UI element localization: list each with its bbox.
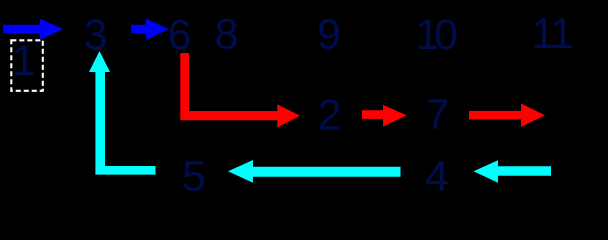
svg-text:6: 6	[168, 11, 192, 59]
node 1 (dashed box)	[11, 40, 43, 91]
svg-text:9: 9	[317, 11, 341, 59]
cyan elbow arrow: node 5 left-up to node 3	[89, 51, 156, 175]
svg-text:2: 2	[318, 92, 342, 140]
red arrow C: node 7 to exit right	[469, 104, 545, 127]
svg-text:4: 4	[425, 153, 449, 201]
svg-text:1: 1	[550, 10, 574, 58]
svg-text:3: 3	[84, 11, 108, 59]
svg-text:7: 7	[426, 91, 450, 139]
red arrow B: node 2 to node 7	[362, 105, 407, 127]
cyan arrow C: entry right to node 4	[474, 160, 552, 183]
red elbow arrow: node 6 down-right to node 2	[180, 53, 300, 128]
svg-text:8: 8	[215, 11, 239, 59]
cyan arrow B: node 4 to node 5	[228, 160, 401, 183]
svg-text:1: 1	[12, 37, 36, 85]
blue arrow B: node 3 to node 6	[131, 19, 169, 40]
svg-text:0: 0	[434, 11, 458, 59]
svg-text:5: 5	[182, 153, 206, 201]
blue arrow A: entry to node 3	[3, 19, 63, 40]
